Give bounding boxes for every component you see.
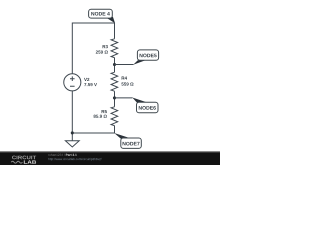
wire right vertical segment 4 — [113, 126, 116, 133]
wire stub NODE6 — [115, 97, 133, 99]
wire right vertical segment 2 — [114, 58, 116, 73]
node NODE 4 label — [89, 9, 116, 23]
ground — [65, 141, 79, 147]
wire bottom horizontal — [72, 132, 114, 134]
value 259 ohm — [96, 50, 108, 53]
label V2 — [84, 78, 89, 81]
footer title text — [48, 154, 64, 156]
node NODE6 label — [132, 98, 158, 113]
node NODE7 label — [114, 133, 141, 148]
footer url text — [48, 158, 101, 161]
wire stub NODE5 — [115, 64, 134, 66]
node NODE6 junction — [113, 96, 116, 99]
label R5 — [102, 110, 107, 113]
node NODE5 junction — [113, 63, 116, 66]
label R4 — [122, 77, 127, 80]
voltage source V2 — [64, 74, 81, 91]
node NODE5 label — [133, 50, 158, 65]
wire right vertical segment 3 — [114, 91, 116, 107]
value 85.9 ohm — [94, 115, 107, 118]
CircuitLab logo — [11, 156, 36, 164]
resistor R5 — [111, 107, 118, 126]
value 7.59 V — [84, 83, 97, 86]
junction at V2 bottom — [71, 131, 74, 134]
wire top horizontal — [72, 22, 114, 24]
label R3 — [103, 45, 108, 48]
resistor R3 — [111, 39, 118, 58]
resistor R4 — [111, 72, 118, 91]
wire right vertical segment 1 — [114, 23, 116, 39]
footer bar — [0, 151, 220, 165]
wire left vertical lower — [71, 91, 73, 141]
value 559 ohm — [121, 82, 133, 85]
wire left vertical upper — [71, 23, 73, 74]
